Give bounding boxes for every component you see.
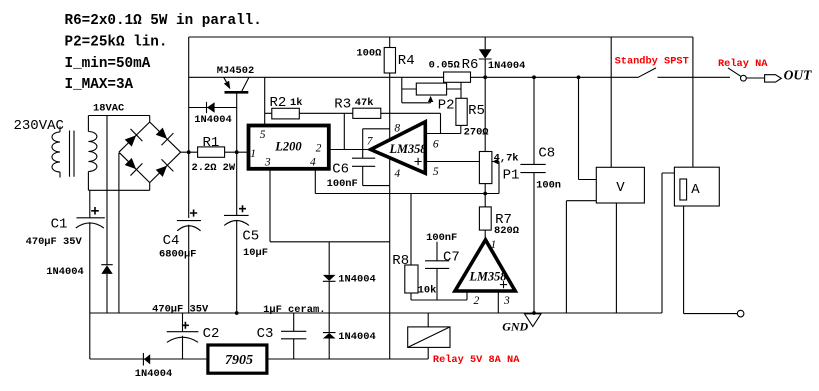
- svg-text:R5: R5: [468, 103, 485, 119]
- svg-text:5: 5: [433, 166, 439, 178]
- svg-text:L200: L200: [274, 140, 302, 154]
- svg-text:R2: R2: [270, 95, 287, 111]
- svg-text:C4: C4: [163, 233, 180, 249]
- svg-text:OUT: OUT: [784, 68, 812, 83]
- svg-text:1N4004: 1N4004: [135, 368, 172, 380]
- svg-text:P1: P1: [503, 168, 520, 184]
- svg-text:6: 6: [433, 138, 439, 150]
- svg-text:4: 4: [310, 157, 316, 169]
- svg-text:3: 3: [264, 157, 271, 169]
- svg-text:1N4004: 1N4004: [338, 274, 375, 286]
- svg-text:1: 1: [491, 239, 497, 251]
- svg-text:MJ4502: MJ4502: [217, 65, 254, 77]
- svg-text:1N4004: 1N4004: [488, 60, 525, 72]
- svg-text:I_MAX=3A: I_MAX=3A: [65, 77, 134, 93]
- svg-text:1: 1: [250, 148, 256, 160]
- svg-text:C5: C5: [242, 228, 259, 244]
- svg-text:C6: C6: [332, 161, 349, 177]
- svg-text:230VAC: 230VAC: [14, 118, 64, 134]
- svg-text:GND: GND: [502, 320, 528, 334]
- svg-text:R6=2x0.1Ω 5W in parall.: R6=2x0.1Ω 5W in parall.: [65, 13, 262, 29]
- svg-text:6800µF: 6800µF: [159, 248, 196, 260]
- svg-text:A: A: [691, 182, 700, 198]
- svg-text:100Ω: 100Ω: [356, 48, 381, 60]
- svg-text:1N4004: 1N4004: [46, 266, 83, 278]
- svg-text:R3: R3: [334, 97, 351, 113]
- svg-text:7905: 7905: [225, 353, 253, 368]
- svg-text:4,7k: 4,7k: [494, 153, 519, 165]
- svg-text:C7: C7: [443, 249, 460, 265]
- svg-text:Relay NA: Relay NA: [718, 58, 768, 70]
- svg-text:100nF: 100nF: [327, 178, 358, 190]
- svg-text:C3: C3: [257, 326, 274, 342]
- svg-text:5: 5: [260, 129, 266, 141]
- svg-text:R6: R6: [462, 57, 479, 73]
- svg-text:LM358: LM358: [389, 142, 427, 156]
- svg-text:10µF: 10µF: [243, 247, 268, 259]
- svg-text:2.2Ω 2W: 2.2Ω 2W: [192, 162, 236, 174]
- svg-text:V: V: [616, 180, 625, 196]
- svg-text:100nF: 100nF: [426, 232, 457, 244]
- svg-text:47k: 47k: [355, 97, 374, 109]
- svg-text:C1: C1: [51, 217, 68, 233]
- svg-text:C2: C2: [203, 326, 220, 342]
- svg-text:R8: R8: [392, 253, 409, 269]
- svg-text:18VAC: 18VAC: [93, 103, 124, 115]
- svg-text:R1: R1: [203, 135, 220, 151]
- svg-text:P2=25kΩ lin.: P2=25kΩ lin.: [65, 35, 168, 51]
- svg-text:1N4004: 1N4004: [194, 114, 231, 126]
- svg-text:I_min=50mA: I_min=50mA: [65, 56, 151, 72]
- svg-text:1N4004: 1N4004: [338, 331, 375, 343]
- svg-text:1k: 1k: [290, 97, 302, 109]
- svg-text:10k: 10k: [418, 285, 437, 297]
- svg-text:3: 3: [503, 295, 510, 307]
- svg-text:2: 2: [474, 295, 480, 307]
- svg-text:C8: C8: [538, 145, 555, 161]
- svg-text:100n: 100n: [536, 180, 561, 192]
- svg-text:Relay 5V 8A NA: Relay 5V 8A NA: [433, 354, 520, 366]
- svg-text:Standby SPST: Standby SPST: [615, 56, 689, 68]
- svg-text:LM358: LM358: [469, 270, 507, 284]
- svg-text:2: 2: [316, 142, 322, 154]
- svg-text:4: 4: [394, 168, 400, 180]
- svg-text:P2: P2: [438, 97, 455, 113]
- svg-text:0.05Ω: 0.05Ω: [429, 60, 460, 72]
- svg-text:820Ω: 820Ω: [494, 225, 519, 237]
- svg-text:R4: R4: [398, 53, 415, 69]
- svg-text:270Ω: 270Ω: [464, 126, 489, 138]
- svg-text:470µF 35V: 470µF 35V: [152, 304, 209, 316]
- svg-text:8: 8: [394, 122, 400, 134]
- svg-text:1µF ceram.: 1µF ceram.: [263, 304, 325, 316]
- svg-text:470µF 35V: 470µF 35V: [26, 236, 83, 248]
